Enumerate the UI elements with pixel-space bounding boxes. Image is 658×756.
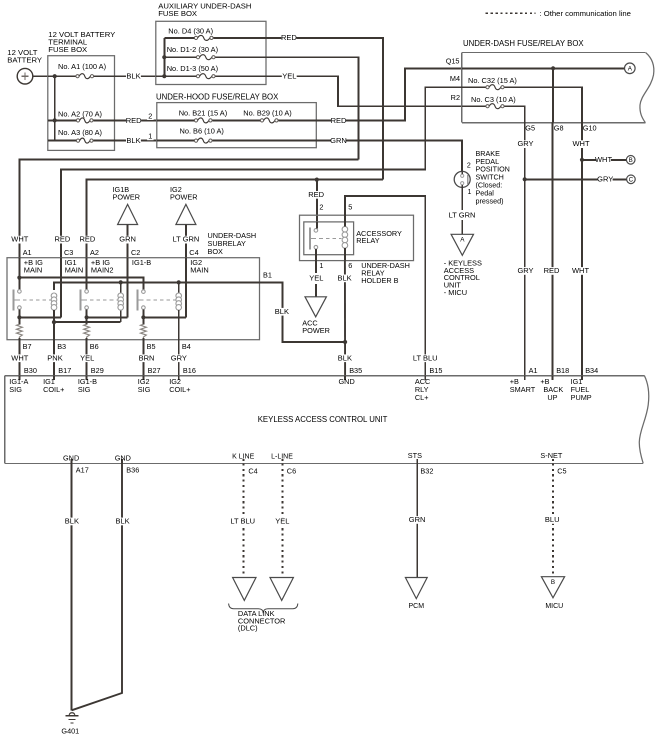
wire BLU: pin C5 S-NET to MICU — [552, 463, 554, 576]
label WHT on subrelay pin A1 wire — [12, 236, 27, 244]
svg-text:B29: B29 — [91, 366, 104, 375]
wire GRN: fuse B6 output to brake pedal position switch — [316, 141, 462, 172]
svg-text:B16: B16 — [183, 366, 196, 375]
svg-text:POWER: POWER — [113, 193, 141, 202]
svg-text:(DLC): (DLC) — [238, 624, 258, 633]
svg-text:C6: C6 — [287, 467, 296, 476]
destination arrow DLC K-line — [233, 578, 256, 601]
svg-text:R2: R2 — [451, 93, 460, 102]
wire RED: fuse D4 output to +B IG MAIN2 feed — [266, 38, 383, 180]
resistor R1 IG1-A sense — [17, 324, 23, 338]
svg-text:WHT: WHT — [11, 235, 28, 244]
svg-text:BLK: BLK — [338, 273, 352, 282]
svg-text:C3: C3 — [64, 248, 73, 257]
wire: battery bus inside fuse box — [48, 75, 78, 77]
svg-text:B18: B18 — [556, 366, 569, 375]
svg-text:WHT: WHT — [595, 155, 612, 164]
svg-text:G10: G10 — [583, 124, 597, 133]
svg-text:Q15: Q15 — [446, 57, 460, 66]
junction coil bus at relay K3 coil — [177, 280, 181, 284]
svg-text:G8: G8 — [554, 124, 564, 133]
wire BRN: relay K3 to pin B5/B27 — [142, 338, 144, 376]
wire RED: fuse A2 to under-hood box pin 2 — [115, 119, 157, 121]
wire BLK: fuse A1 to auxiliary fuse box — [115, 75, 156, 77]
svg-text:WHT: WHT — [11, 353, 28, 362]
destination arrow ACC POWER — [305, 297, 326, 317]
wire LT BLU: pin C4 K-line to data link connector — [243, 463, 245, 577]
svg-text:1: 1 — [319, 261, 323, 270]
svg-text:No. B21 (15 A): No. B21 (15 A) — [179, 109, 227, 118]
svg-text:No. A3 (80 A): No. A3 (80 A) — [58, 128, 102, 137]
wire: accessory relay pin 2 stub — [316, 222, 318, 229]
svg-text:LT GRN: LT GRN — [449, 211, 476, 220]
svg-text:RED: RED — [544, 266, 560, 275]
svg-text:PCM: PCM — [409, 603, 425, 610]
svg-text:K LINE: K LINE — [232, 453, 255, 460]
wire: fuse D1-2 output to +B IG MAIN feed — [266, 57, 358, 159]
svg-text:No. C3 (10 A): No. C3 (10 A) — [471, 95, 516, 104]
junction A1 feed — [17, 276, 21, 280]
wire: battery positive to fuse A1 row — [33, 75, 48, 77]
wire GRN: pin B32 STS to PCM — [416, 463, 418, 577]
svg-text:GRN: GRN — [330, 136, 347, 145]
wire GRN: IG1B POWER arrow to subrelay pin C2 — [127, 225, 129, 258]
svg-text:No. A1 (100 A): No. A1 (100 A) — [58, 62, 106, 71]
svg-text:GRN: GRN — [409, 515, 426, 524]
svg-text:WHT: WHT — [572, 139, 589, 148]
wire GRY to connector C — [525, 178, 627, 180]
wire RED: pin G8 to keyless unit pin B18 +B BACK UP — [551, 123, 553, 376]
svg-text:B15: B15 — [429, 366, 442, 375]
wire RED: fuse B29 output to under-dash box pin Q15 — [316, 68, 462, 120]
svg-text:2: 2 — [148, 111, 152, 120]
junction BLK ground net — [343, 340, 347, 344]
svg-text:RED: RED — [308, 190, 324, 199]
svg-text:- MICU: - MICU — [444, 288, 467, 297]
wire: K1 contact output to pin C3 column — [18, 309, 20, 324]
svg-text:RED: RED — [331, 116, 347, 125]
svg-text:LT GRN: LT GRN — [172, 235, 199, 244]
relay K3 contact (IG2 MAIN) — [142, 290, 146, 294]
data link connector DLC brace — [229, 604, 298, 614]
svg-text:B36: B36 — [126, 466, 139, 475]
svg-text:6: 6 — [348, 261, 352, 270]
connector C — [627, 175, 636, 184]
svg-text:C2: C2 — [131, 248, 140, 257]
destination arrow A keyless access control unit — [451, 234, 473, 255]
wire YEL: fuse D1-3 output to under-dash box pin R2 — [266, 76, 462, 106]
keyless access control unit — [5, 375, 645, 377]
wire: K3 contact output to pin C4 column — [142, 309, 144, 324]
svg-text:B1: B1 — [263, 271, 272, 280]
svg-text:A1: A1 — [529, 366, 538, 375]
svg-text:A2: A2 — [90, 248, 99, 257]
svg-text:: Other communication line: : Other communication line — [540, 9, 631, 18]
svg-text:GRY: GRY — [517, 139, 533, 148]
svg-text:UNDER-HOOD FUSE/RELAY BOX: UNDER-HOOD FUSE/RELAY BOX — [156, 93, 279, 102]
resistor R3 IG2 sense — [141, 324, 147, 338]
svg-text:BATTERY: BATTERY — [7, 56, 42, 65]
svg-text:No. D1-2 (30 A): No. D1-2 (30 A) — [167, 45, 218, 54]
svg-text:RED: RED — [79, 235, 95, 244]
ground G401 — [69, 713, 75, 715]
svg-text:BOX: BOX — [208, 247, 224, 256]
svg-text:BLU: BLU — [545, 515, 560, 524]
svg-text:MAIN2: MAIN2 — [91, 266, 114, 275]
svg-text:UNDER-DASH FUSE/RELAY BOX: UNDER-DASH FUSE/RELAY BOX — [463, 39, 584, 48]
svg-text:2: 2 — [467, 162, 471, 169]
svg-text:PUMP: PUMP — [571, 393, 592, 402]
label RED on subrelay pin C3 wire — [55, 236, 70, 244]
svg-text:LT BLU: LT BLU — [413, 353, 438, 362]
svg-text:UP: UP — [547, 393, 557, 402]
svg-text:G401: G401 — [61, 727, 79, 736]
svg-text:GND: GND — [339, 377, 355, 386]
svg-text:2: 2 — [319, 203, 323, 212]
svg-text:SMART: SMART — [510, 385, 536, 394]
svg-text:MAIN: MAIN — [65, 266, 83, 275]
wire LT GRN: IG2 POWER arrow to subrelay pin C4 — [185, 225, 187, 258]
wire: pin A2 to relay K2 contact — [86, 258, 88, 290]
svg-text:RED: RED — [126, 116, 142, 125]
under-dash relay holder B — [300, 215, 414, 260]
svg-text:YEL: YEL — [80, 353, 94, 362]
wire: aux box internal bus — [156, 75, 198, 77]
svg-text:No. B29 (10 A): No. B29 (10 A) — [243, 109, 291, 118]
wire: Q15 row to connector A — [462, 67, 625, 69]
wire: coil bus down to relay K2 coil — [120, 282, 122, 293]
destination arrow DLC L-line — [270, 578, 293, 601]
svg-text:YEL: YEL — [282, 72, 296, 81]
svg-text:M4: M4 — [450, 74, 460, 83]
svg-text:YEL: YEL — [309, 273, 323, 282]
svg-text:PNK: PNK — [47, 353, 62, 362]
wire YEL: relay K2 to pin B6/B29 — [86, 338, 88, 376]
svg-text:STS: STS — [408, 451, 422, 460]
wire: K2 contact output to pin C2 column — [86, 309, 88, 324]
svg-text:C4: C4 — [248, 467, 257, 476]
svg-text:BLK: BLK — [126, 72, 140, 81]
svg-text:B4: B4 — [182, 342, 191, 351]
svg-text:No. B6 (10 A): No. B6 (10 A) — [180, 127, 224, 136]
svg-text:MAIN: MAIN — [24, 266, 42, 275]
svg-text:A1: A1 — [23, 248, 32, 257]
svg-text:YEL: YEL — [275, 517, 289, 526]
wire WHT to connector B — [582, 159, 626, 161]
relay K1 contact (IG1 MAIN) — [18, 290, 22, 294]
junction aux bus at fuse D1-3 — [162, 74, 166, 78]
wire: Q15 net down to pin G8 — [552, 68, 554, 122]
connector A — [625, 63, 636, 74]
svg-text:No. D4 (30 A): No. D4 (30 A) — [168, 26, 213, 35]
svg-text:5: 5 — [348, 203, 352, 212]
svg-text:B17: B17 — [58, 366, 71, 375]
svg-text:BLK: BLK — [126, 136, 140, 145]
svg-text:B34: B34 — [585, 366, 598, 375]
svg-text:GND: GND — [63, 453, 79, 462]
svg-text:B35: B35 — [349, 366, 362, 375]
svg-text:SIG: SIG — [138, 385, 151, 394]
wire: relay K1 coil to pin B3 and coil bus of K2 — [53, 310, 55, 376]
svg-text:BLK: BLK — [338, 353, 352, 362]
wire GRY: relay K3 coil to pin B4/B16 — [178, 310, 180, 376]
accessory relay coil — [342, 227, 348, 233]
svg-text:No. A2 (70 A): No. A2 (70 A) — [58, 110, 102, 119]
svg-text:B3: B3 — [57, 342, 66, 351]
svg-text:GRY: GRY — [517, 266, 533, 275]
pin stubs on keyless access control unit — [18, 376, 20, 381]
destination arrow B MICU — [541, 577, 564, 598]
svg-text:B: B — [551, 579, 555, 586]
wire WHT: relay K1 to pin B7/B30 — [18, 338, 20, 376]
svg-text:GRY: GRY — [171, 353, 187, 362]
svg-text:RELAY: RELAY — [356, 236, 380, 245]
wire LT GRN: brake switch to keyless access control unit — [461, 185, 463, 210]
svg-text:G5: G5 — [525, 124, 535, 133]
junction accessory relay feed on +B row — [315, 178, 319, 182]
svg-text:HOLDER B: HOLDER B — [361, 276, 398, 285]
svg-text:No. D1-3 (50 A): No. D1-3 (50 A) — [167, 64, 218, 73]
svg-text:CL+: CL+ — [415, 393, 429, 402]
svg-text:B6: B6 — [90, 342, 99, 351]
wire YEL: pin C6 L-line to data link connector — [281, 463, 283, 577]
relay K2 coil — [118, 293, 124, 299]
resistor R2 IG1-B sense — [84, 324, 90, 338]
svg-text:C: C — [629, 178, 634, 184]
svg-text:B30: B30 — [24, 366, 37, 375]
svg-text:MICU: MICU — [545, 603, 563, 610]
wire: A1 jumper feeding relay K3 contact — [19, 278, 143, 290]
svg-text:B: B — [629, 158, 633, 164]
destination arrow PCM — [405, 578, 427, 599]
svg-text:BLK: BLK — [65, 517, 79, 526]
svg-text:KEYLESS ACCESS CONTROL UNIT: KEYLESS ACCESS CONTROL UNIT — [258, 415, 388, 424]
junction GRY branch to connector C — [523, 177, 527, 181]
wire BLK: fuse A3 to under-hood box pin 1 — [115, 140, 157, 142]
svg-text:RED: RED — [281, 33, 297, 42]
relay K3 coil — [176, 293, 182, 299]
svg-text:No. C32 (15 A): No. C32 (15 A) — [468, 76, 517, 85]
svg-text:L-LINE: L-LINE — [271, 453, 293, 460]
wire: IG1 MAIN row from under-dash pin M4 to subrelay pin C3 — [61, 87, 462, 258]
wire BLK: pin A17 to ground G401 — [71, 463, 73, 710]
connector B — [626, 156, 635, 165]
wire: fuse C32 to pin G10 — [504, 87, 582, 123]
svg-text:pressed): pressed) — [476, 196, 504, 205]
svg-text:1: 1 — [468, 189, 472, 196]
svg-text:COIL+: COIL+ — [43, 385, 64, 394]
svg-text:FUSE BOX: FUSE BOX — [48, 45, 87, 54]
junction aux bus at fuse D1-2 — [162, 55, 166, 59]
svg-text:B5: B5 — [147, 342, 156, 351]
junction battery bus at fuse A2 row — [53, 118, 57, 122]
wire WHT: pin G10 to keyless unit pin B34 IG1 FUEL PUMP — [581, 123, 583, 376]
svg-text:S-NET: S-NET — [540, 451, 562, 460]
svg-text:POWER: POWER — [170, 193, 198, 202]
wire: coil feed bus to B1 — [54, 282, 260, 290]
relay K2 contact (IG1-B) — [85, 290, 89, 294]
junction battery bus at fuse A1 row — [53, 74, 57, 78]
svg-text:SIG: SIG — [78, 385, 91, 394]
svg-text:POWER: POWER — [302, 326, 330, 335]
svg-text:SIG: SIG — [9, 385, 22, 394]
svg-text:B32: B32 — [420, 467, 433, 476]
svg-text:1: 1 — [148, 132, 152, 141]
svg-text:C5: C5 — [557, 467, 566, 476]
svg-text:C4: C4 — [189, 248, 198, 257]
wire GRY: pin G5 to keyless unit pin A1 +B SMART — [524, 123, 526, 376]
wire RED: feed to accessory relay pin 2 — [316, 180, 318, 222]
svg-text:GRY: GRY — [597, 175, 613, 184]
legend: other communication line — [486, 12, 536, 14]
junction on Q15 row at G8 column — [551, 66, 555, 70]
wire: fuse C3 to pin G5 — [504, 106, 524, 123]
wire: coil bus down to relay K3 coil — [178, 282, 180, 293]
wire: pin A1 to relay K1 contact — [18, 258, 20, 290]
svg-text:MAIN: MAIN — [190, 266, 208, 275]
svg-text:WHT: WHT — [572, 266, 589, 275]
relay K1 coil — [51, 293, 57, 299]
svg-text:B27: B27 — [148, 366, 161, 375]
wire RED: +B IG MAIN2 row to subrelay pin A2 — [87, 180, 383, 258]
junction coil bus at relay K2 coil — [119, 280, 123, 284]
svg-text:GRN: GRN — [119, 235, 136, 244]
wire BLK: pin B36 to ground G401 — [72, 463, 122, 710]
svg-text:BLK: BLK — [275, 307, 289, 316]
svg-text:FUSE BOX: FUSE BOX — [158, 9, 197, 18]
svg-text:COIL+: COIL+ — [169, 385, 190, 394]
svg-text:A17: A17 — [76, 466, 89, 475]
wire: +B IG MAIN feed row to subrelay pin A1 — [19, 159, 358, 257]
svg-text:B7: B7 — [23, 342, 32, 351]
svg-text:GND: GND — [115, 453, 131, 462]
accessory relay contact — [314, 229, 318, 233]
svg-text:BRN: BRN — [139, 353, 155, 362]
svg-text:BLK: BLK — [116, 517, 130, 526]
junction WHT branch to connector B — [580, 158, 584, 162]
svg-text:RED: RED — [54, 235, 70, 244]
svg-text:LT BLU: LT BLU — [230, 517, 255, 526]
svg-text:IG1-B: IG1-B — [132, 258, 151, 267]
label RED on subrelay pin A2 wire — [80, 236, 95, 244]
